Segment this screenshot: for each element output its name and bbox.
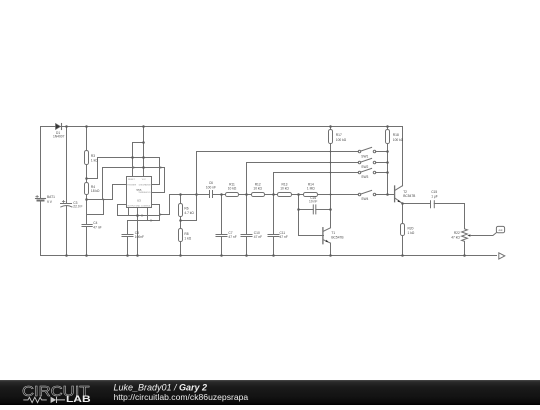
wire: wiper to out flag [471,233,497,236]
junction: rail C3 [65,254,68,257]
svg-text:RESET: RESET [128,179,135,181]
capacitor C16 [299,205,331,214]
wire: T1 emitter to ground [330,243,332,255]
svg-text:C6: C6 [209,181,213,185]
junction: rail gnd [136,254,139,257]
svg-text:R20: R20 [408,227,414,231]
junction: R18 top rail [386,125,389,128]
svg-text:4.7 kΩ: 4.7 kΩ [184,211,194,215]
junction: C16 drop [297,193,300,196]
junction: C3 top rail [65,125,68,128]
svg-text:R6: R6 [184,207,188,211]
svg-text:CONTROL: CONTROL [141,205,152,207]
wire: 555 output to signal line [160,195,170,215]
svg-text:1 kΩ: 1 kΩ [408,231,415,235]
junction: rail C7 [220,254,223,257]
arrow: tap signal [196,193,199,195]
svg-text:22.0 F: 22.0 F [73,205,82,209]
wire: top supply rail [41,126,403,128]
arrow: output loop [142,214,145,216]
wire: R4/C4 node to 555 threshold [103,168,165,200]
wire: 555 control pin stub [147,208,149,221]
wire: 555 reset to vcc bridge [133,143,144,177]
svg-text:9 V: 9 V [47,200,53,204]
svg-text:U3: U3 [137,198,141,202]
svg-text:C4: C4 [93,221,97,225]
arrow: out wire [160,213,163,215]
svg-text:SW4: SW4 [361,197,368,201]
junction: gnd loop [136,214,139,217]
junction: R4/C4 [85,198,88,201]
resistor R8 [179,229,183,256]
svg-text:47 kΩ: 47 kΩ [451,236,460,240]
junction: R6 top [179,193,182,196]
junction: tap signal [195,193,198,196]
junction: rail R20 [401,254,404,257]
svg-text:R22: R22 [454,231,460,235]
wire: loop below R4 node [87,200,104,215]
svg-text:T1: T1 [331,231,335,235]
junction: C16 right [329,208,332,211]
junction: rail C8 [126,254,129,257]
junction: R18 row1 [386,150,389,153]
svg-text:10 kΩ: 10 kΩ [253,186,262,190]
logo zigzag resistor [23,397,47,402]
junction: R18 row2 [386,161,389,164]
wire: R11 to R12 [239,194,252,196]
junction: rail T1 [329,254,332,257]
svg-text:1 kΩ: 1 kΩ [91,158,98,162]
resistor R4 [85,183,89,225]
logo diode [51,397,57,403]
junction: rail R8 [179,254,182,257]
junction: reset bridge [142,141,145,144]
wire: T2 emitter node [402,204,404,224]
resistor R18 [386,127,390,195]
battery BAT1 [36,127,46,256]
capacitor C15 [431,201,465,208]
junction: C16 left [297,208,300,211]
junction: rail C11 [272,254,275,257]
capacitor C7 [216,195,227,256]
wire: output loop below 555 [118,205,160,216]
resistor R11 [226,193,239,197]
svg-text:SW1: SW1 [361,155,368,159]
arrow: wireB second [160,166,163,168]
capacitor C10 [241,195,252,256]
junction: collector signal [330,193,333,195]
junction: row2 collector cross [330,162,332,164]
wire: 555 gnd pin to ground rail [137,208,139,256]
junction: rail R22 [463,254,466,257]
svg-text:SW2: SW2 [361,165,368,169]
wire: C15 to pot top [464,204,466,229]
svg-text:18 kΩ: 18 kΩ [91,189,100,193]
resistor R13 [278,193,292,197]
switch SW2 [358,158,387,163]
junction: wireB vcc cross [142,166,145,169]
svg-text:BC547B: BC547B [331,235,343,239]
junction: VCC top rail [142,125,145,128]
svg-text:100 kΩ: 100 kΩ [336,138,347,142]
svg-text:1 kΩ: 1 kΩ [184,236,191,240]
svg-text:THRESHOLD: THRESHOLD [138,192,151,194]
svg-text:R18: R18 [393,133,399,137]
svg-text:BAT1: BAT1 [47,195,55,199]
wire: T1 base drop [299,195,324,236]
junction: R17 top rail [329,125,332,128]
switch SW1 [358,147,387,152]
svg-text:BC547B: BC547B [403,194,415,198]
junction: R18 row3 [386,171,389,174]
junction: R3 top rail [85,125,88,128]
svg-text:R17: R17 [336,133,342,137]
svg-text:1N4007: 1N4007 [53,135,65,139]
node out flag [496,226,504,232]
capacitor C4 [82,225,92,256]
footer bar [0,380,540,405]
svg-text:TRIGGER: TRIGGER [127,185,137,187]
junction: C7 signal [220,193,223,196]
wire: 555 vcc to top rail [143,127,145,177]
junction: T2 emitter [401,202,404,205]
arrow: wireB [133,166,136,168]
junction: rail C4 [85,254,88,257]
junction: row1 collector cross [330,151,332,153]
wire: R12 to R13 [265,194,278,196]
junction: R3/R4 [85,177,88,180]
svg-text:10 kΩ: 10 kΩ [228,186,237,190]
wire: collector line R17 to T1 [330,144,332,228]
junction: rail C10 [245,254,248,257]
transistor T2 BC547B [388,186,403,204]
resistor R20 [401,224,405,256]
svg-text:1 µF: 1 µF [431,194,438,198]
svg-text:VCC: VCC [142,179,147,181]
resistor R12 [252,193,265,197]
potentiometer R22 [462,229,471,256]
svg-text:C15: C15 [431,190,437,194]
wire: signal line segment B [213,194,226,196]
wire: bottom ground rail [41,255,497,257]
junction: R6/R8 [179,219,182,222]
capacitor C6 [210,191,213,198]
wire: top rail down to T2 collector [402,127,404,186]
svg-text:47 nF: 47 nF [228,235,236,239]
wire: R14 to SW4 row [318,194,359,196]
resistor R14 [304,193,318,197]
svg-text:DISCHARGE: DISCHARGE [139,184,152,187]
svg-text:555: 555 [136,188,141,192]
op-amp U3 555 timer box [127,177,152,208]
junction: T2 base row [386,193,389,196]
junction: wireA reset cross [131,156,134,159]
svg-text:T2: T2 [403,190,407,194]
switch SW3 [358,168,387,173]
svg-text:100nF: 100nF [135,235,144,239]
svg-text:10 nF: 10 nF [309,200,317,204]
wire: R4/C4 node to 555 trigger [87,185,127,200]
wire: row3 [274,173,359,195]
wire: signal line segment A [170,194,210,196]
wire: R3/R4 node to 555 discharge [87,158,160,185]
capacitor C8 [122,221,133,256]
resistor R6 [179,195,183,229]
arrow: trigger wire [103,198,106,200]
svg-text:LAB: LAB [66,394,91,404]
resistor R3 [85,127,89,183]
wire: divider tap [181,220,197,222]
svg-text:SW3: SW3 [361,175,368,179]
capacitor C11 [268,195,279,256]
transistor T1 BC547B [323,228,331,244]
svg-text:47 nF: 47 nF [254,235,262,239]
svg-text:47 nF: 47 nF [280,235,288,239]
component labels [47,131,503,241]
wire: 555 output pin stub [128,208,130,216]
svg-text:out: out [499,228,503,232]
node: output terminal arrow [499,253,505,259]
svg-text:1 MΩ: 1 MΩ [307,186,315,190]
diode D1 1N4007 [56,124,62,130]
svg-text:R8: R8 [184,232,188,236]
junction: wireA vcc cross [142,156,145,159]
svg-text:http://circuitlab.com/ck86uzep: http://circuitlab.com/ck86uzepsrapa [114,392,249,402]
wire: row2 [247,163,359,195]
switch SW4 [358,190,387,195]
svg-text:GND: GND [136,205,141,207]
capacitor C3 [61,127,72,256]
svg-text:10 kΩ: 10 kΩ [280,186,289,190]
junction: C11 signal [272,193,275,196]
resistor R17 [329,127,333,144]
svg-text:47 nF: 47 nF [93,226,101,230]
wire: emitter to C15 [403,203,431,205]
junction dots [65,125,466,257]
svg-text:100 nF: 100 nF [206,186,216,190]
junction: C10 signal [245,193,248,196]
wire: R13 to R14 [292,194,304,196]
junction: row3 collector cross [330,172,332,174]
arrow: control loop [151,219,154,221]
555 pin labels [127,179,151,207]
wire: control/C8 link [128,205,160,221]
small connection arrows [103,166,200,221]
wire: tap vertical to row1 [197,152,359,221]
svg-text:100 kΩ: 100 kΩ [393,138,404,142]
